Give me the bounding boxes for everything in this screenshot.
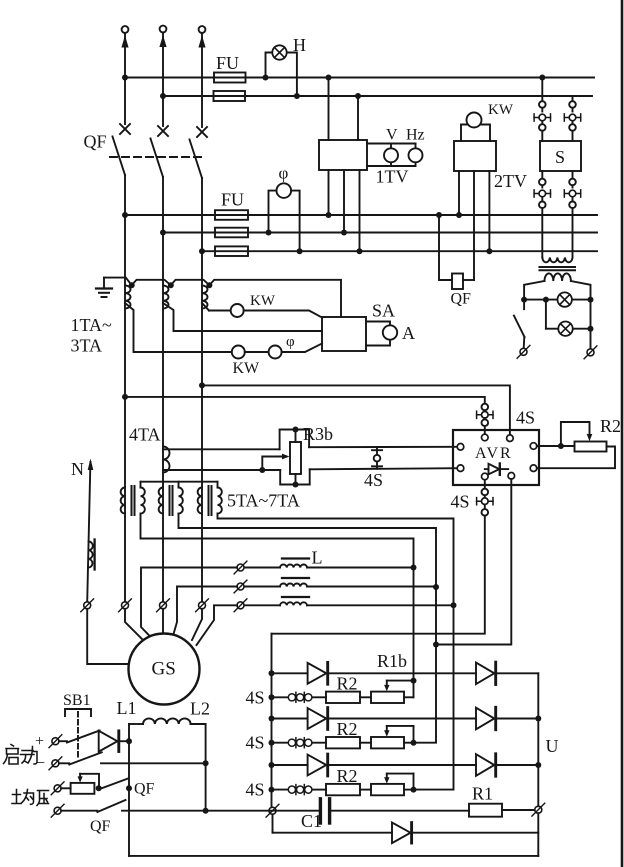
junction sync left node <box>521 297 527 303</box>
svg-text:KW: KW <box>250 293 276 309</box>
reactor L1 winding <box>280 565 307 568</box>
svg-text:KW: KW <box>488 102 514 118</box>
wire 1TV secondary lead c <box>359 170 361 251</box>
junction L row2 feed <box>433 584 439 590</box>
choke N bar <box>93 540 95 570</box>
junction gen bus1 phase A <box>122 212 128 218</box>
svg-text:4S: 4S <box>246 733 265 753</box>
junction row2 U rail <box>535 716 541 722</box>
junction rail row s3 <box>269 787 275 793</box>
meter Hz <box>409 148 423 162</box>
CT 1TA winding <box>125 286 131 309</box>
connector 4S mid vertical <box>372 447 382 469</box>
junction bus L2 / phase B <box>160 93 166 99</box>
junction rail row d3 <box>269 762 275 768</box>
plug column S left upper <box>539 78 546 112</box>
terminal rail C1 row <box>266 804 279 817</box>
junction lamp row1 tap <box>543 297 549 303</box>
wire phase A to 4S connector AVR <box>125 397 485 404</box>
CT 2TA winding <box>163 286 169 309</box>
gen bus 3 <box>202 250 597 252</box>
terminal L row3 <box>234 599 247 612</box>
reactor L3 winding <box>280 602 307 605</box>
diode row2 right <box>476 707 496 729</box>
junction wiper row1 <box>411 678 417 684</box>
wire 5TA unitC to row3 feed <box>218 514 454 606</box>
pin AVR bottom1 <box>482 473 489 480</box>
junction bus L1 / phase A <box>122 75 128 81</box>
svg-text:2TV: 2TV <box>494 171 527 191</box>
junction L row3 feed <box>451 602 457 608</box>
label qidong (start) hand glyphs <box>4 745 38 765</box>
wire pot right row2 <box>404 742 414 744</box>
meter KW on 2TV <box>467 113 482 128</box>
wire pot right row3 <box>404 789 414 791</box>
svg-text:φ: φ <box>286 334 295 350</box>
wire R2 return to AVR pin2 <box>537 447 615 469</box>
wire equalize row2 lead <box>61 810 97 812</box>
terminal sync switch <box>517 345 530 358</box>
wire sync lamp row 2 <box>546 300 591 329</box>
svg-text:N: N <box>71 459 84 479</box>
wire start plus lead <box>59 740 67 742</box>
lamp H <box>272 45 286 59</box>
junction minus field right <box>203 760 209 766</box>
wire start minus lead <box>59 762 69 764</box>
svg-text:1TV: 1TV <box>376 167 409 187</box>
diode row3 left <box>308 754 328 776</box>
wire into AVR top pin1 <box>484 426 486 434</box>
wire GS lead phase A <box>125 609 146 643</box>
wire CT secondary common chain <box>104 278 341 317</box>
resistor R2 row2 <box>326 737 360 748</box>
svg-text:SA: SA <box>372 301 395 321</box>
junction lamp H on bus L1 <box>263 75 269 81</box>
wire switch lower lead <box>523 337 526 348</box>
label junya (equalize) hand glyphs <box>12 790 49 806</box>
contact SB1 blade plus <box>67 731 100 743</box>
junction pinB2 wire L2 feed <box>433 642 439 648</box>
junction rail row s2 <box>269 740 275 746</box>
terminal L row2 <box>234 580 247 593</box>
wire 2TV lead a <box>458 171 460 215</box>
diode row4 <box>392 823 412 844</box>
wire GS lead L row3 <box>197 605 238 645</box>
terminal start plus <box>49 735 62 748</box>
wire CT1 lead to KW2 <box>125 303 232 352</box>
plug 4S above AVR a <box>482 404 489 411</box>
diode row2 left <box>308 708 328 730</box>
svg-text:U: U <box>546 736 559 756</box>
reactor L row 2 wire <box>244 586 436 588</box>
svg-text:R2: R2 <box>337 674 358 694</box>
transformer 5TA unit C primary <box>198 488 202 514</box>
wire phi right lead <box>291 191 300 252</box>
resistor R2 row1 <box>326 692 360 703</box>
wire field left vertical <box>128 724 130 856</box>
wire bottom return <box>129 855 538 857</box>
plug column S right upper <box>569 96 576 112</box>
junction gen bus3 phase C <box>199 248 205 254</box>
transformer 2TV box <box>454 141 496 171</box>
junction sync right node 1 <box>588 297 594 303</box>
connector 4S below AVR <box>477 498 493 505</box>
capacitor C1 <box>269 799 469 823</box>
wire diode row1 <box>272 672 539 674</box>
junction lamp H on bus L2 <box>294 93 300 99</box>
coil QF box <box>452 274 463 290</box>
wire KW1 to SA <box>244 311 322 318</box>
regulator AVR box <box>453 430 539 485</box>
wiper hook row3 <box>384 774 413 790</box>
connector 4S above AVR <box>477 411 493 418</box>
plug column S right lower <box>569 171 576 188</box>
svg-text:L1: L1 <box>117 698 137 718</box>
svg-text:R2: R2 <box>337 766 358 786</box>
junction 1TV on bus L1 <box>326 75 332 81</box>
coil QF trip leads <box>439 215 474 280</box>
fuse FU gen phase A <box>215 210 248 220</box>
junction wiper row3 <box>411 787 417 793</box>
svg-text:H: H <box>293 35 306 55</box>
fuse FU phase A <box>214 73 246 83</box>
junction 1TV lead b gen bus2 <box>341 230 347 236</box>
wire 4S row2 <box>272 742 327 744</box>
transformer 5TA unit A primary <box>121 488 125 514</box>
svg-text:4S: 4S <box>516 408 535 428</box>
resistor R3b body <box>290 433 301 482</box>
junction 1TV on bus L2 <box>355 93 361 99</box>
wire 4S row3 <box>272 789 327 791</box>
svg-text:1TA~: 1TA~ <box>71 315 113 335</box>
svg-text:3TA: 3TA <box>71 336 103 356</box>
reactor L row 3 wire <box>244 604 454 606</box>
svg-text:4S: 4S <box>246 780 265 800</box>
svg-text:4S: 4S <box>246 687 265 707</box>
breaker QF main, pole 1 <box>113 124 131 215</box>
wire sync secondary right lead <box>571 281 591 349</box>
transformer 5TA unit B core <box>170 486 173 515</box>
terminal gen phase B <box>157 599 170 612</box>
svg-text:QF: QF <box>90 818 111 835</box>
rheostat R2 body <box>575 442 607 452</box>
meter A <box>383 325 397 339</box>
connector S right upper <box>564 114 580 121</box>
pin AVR top1 <box>482 434 489 441</box>
rheostat R1b row2 <box>371 737 404 748</box>
plug column S right upper cont <box>569 121 576 141</box>
lamp H leads <box>266 53 297 97</box>
meter V <box>384 148 398 162</box>
junction phi on gen bus2 <box>266 230 272 236</box>
junction R2 wiper tap <box>558 443 564 449</box>
wire L row1 feed down <box>413 568 415 681</box>
junction S column on bus L1 <box>539 75 545 81</box>
svg-text:KW: KW <box>233 360 261 377</box>
pin AVR left2 <box>457 465 464 472</box>
wire SA to ammeter <box>366 322 390 346</box>
rheostat R1b row3 <box>371 784 404 795</box>
bus L2 top <box>163 95 592 97</box>
wire 1TV secondary lead b <box>343 170 345 233</box>
switch sync blade <box>514 316 525 337</box>
plug 4S below AVR a <box>482 480 489 498</box>
connector S left lower <box>534 190 550 197</box>
transformer 5TA unit B secondary <box>179 488 183 514</box>
wire GS lead phase B <box>162 609 164 634</box>
wire R1 to U terminal <box>502 809 535 811</box>
wire 5TA unitA to row1 feed <box>141 514 414 568</box>
bracket R3b bottom right <box>299 469 310 484</box>
wire 2TV lead b <box>473 171 475 280</box>
breaker QF main, pole 3 <box>190 127 208 251</box>
terminal L row1 <box>234 561 247 574</box>
reactor L2 core bar <box>282 577 309 579</box>
junction L row1 feed <box>411 565 417 571</box>
fuse FU gen phase B <box>215 228 248 238</box>
node N arrow <box>87 459 93 602</box>
lamp sync 1 <box>558 292 572 306</box>
terminal equalize row2 <box>51 804 64 817</box>
contact SB1 blade minus <box>69 752 101 764</box>
transformer 1TV box <box>319 140 367 170</box>
pushbutton SB1 actuator <box>65 709 91 716</box>
wire CT3 lead to KW1 <box>202 303 231 311</box>
contact QF aux blade row2 <box>97 800 125 812</box>
diode AVR internal <box>485 464 508 475</box>
generator GS <box>129 634 200 705</box>
terminal gen phase C <box>196 599 209 612</box>
wire GS lead phase C <box>192 609 202 640</box>
bracket R3b bottom left <box>280 470 292 485</box>
svg-text:SB1: SB1 <box>63 692 91 709</box>
junction field left row1 <box>126 785 132 791</box>
wire 5TA unitB to row2 feed <box>179 514 437 587</box>
fuse FU phase B <box>214 91 246 101</box>
wire supply phase B with arrow <box>162 33 164 127</box>
wire supply phase A with arrow <box>124 33 126 124</box>
svg-text:+: + <box>35 733 44 750</box>
meter KW2b phi <box>269 346 282 359</box>
wire KW2 to SA <box>282 344 322 353</box>
bus L1 top <box>125 77 594 79</box>
wire sync secondary left lead <box>524 281 544 309</box>
wire R3b to AVR pin1 <box>309 446 457 448</box>
svg-text:S: S <box>555 147 565 167</box>
wire 5TA secondary top rail <box>141 482 218 488</box>
wire start minus to field right <box>101 762 206 764</box>
wire phase C to AVR top pin2 <box>202 385 510 435</box>
wire KW2 link <box>245 351 269 353</box>
lamp sync 2 <box>558 322 572 336</box>
wire supply phase C with arrow <box>201 33 203 127</box>
svg-text:4TA: 4TA <box>129 425 161 445</box>
terminal sync right <box>584 346 597 359</box>
junction CT1 common <box>129 282 135 288</box>
svg-text:QF: QF <box>84 132 107 152</box>
junction rail row s1 <box>269 694 275 700</box>
junction rail row d1 <box>269 670 275 676</box>
terminal gen phase A <box>119 599 132 612</box>
wire pot right row1 <box>404 696 414 698</box>
svg-text:L2: L2 <box>190 699 210 719</box>
junction rheostat out <box>96 785 102 791</box>
contact QF aux blade row1 <box>100 779 128 789</box>
diode row1 right <box>476 662 496 684</box>
transformer sync primary winding <box>542 258 572 263</box>
field winding L1-L2 <box>129 718 206 724</box>
wire phase B lower <box>162 233 164 602</box>
CT 4TA winding <box>163 447 170 473</box>
connector S left upper <box>534 114 550 121</box>
terminal start minus <box>49 757 62 770</box>
bracket R3b top right <box>299 430 310 448</box>
wire AVR 4S down to rail <box>272 516 485 634</box>
choke N winding <box>88 542 93 568</box>
junction 2TV lead c on gen bus 3 <box>486 248 492 254</box>
wire CT2 lead to SA <box>163 303 322 331</box>
connector 4S row2 <box>288 738 312 748</box>
junction wire 397 on phase A <box>122 394 128 400</box>
leads KW to 2TV <box>461 125 490 142</box>
junction 1TV lead a gen bus1 <box>326 212 332 218</box>
fuse FU gen phase C <box>215 246 248 256</box>
wire L row3 feed down <box>414 605 454 789</box>
reactor L2 winding <box>280 584 307 587</box>
plug column S left lower <box>539 171 546 188</box>
wiper hook row2 <box>384 726 413 743</box>
wire phase A lower <box>124 215 126 602</box>
wire phi left lead <box>269 191 277 233</box>
gen bus 2 <box>163 232 597 234</box>
wire 4TA upper to R3b <box>163 448 280 450</box>
diode row1 left <box>308 662 328 684</box>
junction 1TV lead c gen bus3 <box>357 248 363 254</box>
wire AVR pin B2 down <box>436 479 511 644</box>
svg-text:AVR: AVR <box>475 445 513 462</box>
wire GS lead L row2 <box>173 587 238 638</box>
transformer sync secondary winding <box>545 273 571 281</box>
terminal equalize row1 <box>51 782 64 795</box>
wire diode row3 <box>272 764 539 766</box>
wire equalize row1 lead <box>61 787 71 789</box>
plug 4S above AVR b <box>482 419 489 426</box>
transformer 1TV primary leads <box>329 78 359 141</box>
svg-text:4S: 4S <box>364 470 383 490</box>
wire R2 to pot row1 <box>360 696 371 698</box>
junction sync right node 2 <box>588 326 594 332</box>
wire field right vertical <box>205 724 207 811</box>
wiper hook row1 <box>384 681 413 698</box>
junction row2 field right <box>203 808 209 814</box>
junction wiper row2 <box>411 740 417 746</box>
plug 4S above AVR link1 <box>484 410 486 411</box>
wire R2 to pot row3 <box>360 789 371 791</box>
transformer sync core <box>540 267 576 270</box>
svg-text:V: V <box>386 127 398 144</box>
transformer 5TA unit C secondary <box>218 488 222 514</box>
svg-text:FU: FU <box>221 190 244 210</box>
meter KW2a <box>232 346 245 359</box>
svg-text:GS: GS <box>152 659 176 680</box>
plug column S right lower cont <box>569 197 576 258</box>
wire sync lamp row 1 <box>524 299 590 301</box>
wire GS lead L row1 <box>141 568 237 642</box>
node terminal circles of incoming supply <box>122 26 129 33</box>
connector S right lower <box>564 190 580 197</box>
svg-text:R2: R2 <box>600 416 621 436</box>
transformer 5TA unit C core <box>209 486 212 515</box>
bracket R3b top left <box>280 430 293 450</box>
svg-text:R1: R1 <box>472 784 493 804</box>
reactor L row 1 wire <box>244 567 414 569</box>
junction rail row d2 <box>269 716 275 722</box>
CT 3TA winding <box>202 286 208 309</box>
wire L row2 feed down <box>414 587 437 743</box>
switch SA box <box>322 317 366 351</box>
diode row3 right <box>476 754 496 776</box>
reactor L3 core bar <box>282 596 309 598</box>
meter KW1 <box>231 304 244 317</box>
diode start <box>99 731 129 752</box>
svg-text:R2: R2 <box>337 719 358 739</box>
wire phase C lower <box>201 251 203 602</box>
transformer 5TA unit A core <box>132 486 135 515</box>
breaker QF main, pole 2 <box>151 126 169 233</box>
svg-text:C1: C1 <box>301 811 322 831</box>
plug column S left upper cont <box>539 121 546 141</box>
svg-text:φ: φ <box>279 164 289 183</box>
meter rails V Hz <box>367 144 416 167</box>
wire diode row4 <box>273 832 539 833</box>
transformer 5TA unit B primary <box>159 488 163 514</box>
pin AVR bottom2 <box>508 473 515 480</box>
junction QF coil on gen bus 1 <box>436 212 442 218</box>
svg-text:R1b: R1b <box>377 651 407 671</box>
terminal U rail <box>532 803 545 816</box>
plug 4S above AVR link2 <box>484 418 486 419</box>
wire AVR right pin1 to R2 <box>537 445 575 447</box>
rheostat equalize <box>71 774 99 794</box>
svg-text:4S: 4S <box>451 492 470 512</box>
rheostat R1b row1 <box>371 692 404 703</box>
svg-text:L: L <box>312 548 323 568</box>
svg-text:FU: FU <box>216 53 239 73</box>
pin AVR right2 <box>530 465 537 472</box>
resistor R1 <box>469 804 502 817</box>
junction R3b top <box>293 427 299 433</box>
wire R3b to AVR pin2 <box>310 468 458 469</box>
wire R2 to pot row2 <box>360 742 371 744</box>
pin AVR top2 <box>507 435 514 442</box>
junction row3 U rail <box>535 762 541 768</box>
wiper R3b arrow <box>262 454 289 467</box>
svg-text:Hz: Hz <box>406 127 425 144</box>
junction CT2 common <box>168 282 174 288</box>
svg-text:QF: QF <box>134 781 155 798</box>
gen bus 1 <box>125 214 597 216</box>
terminal N <box>81 599 94 612</box>
connector 4S row3 <box>288 785 312 795</box>
junction diode to field left <box>126 738 132 744</box>
ground symbol <box>96 278 112 297</box>
border frame right edge <box>621 0 624 867</box>
plug 4S below AVR b <box>482 505 489 516</box>
connector 4S row1 <box>288 692 312 702</box>
resistor R2 row3 <box>326 784 360 795</box>
wire N terminal to GS <box>87 609 128 664</box>
svg-text:R3b: R3b <box>303 424 333 444</box>
